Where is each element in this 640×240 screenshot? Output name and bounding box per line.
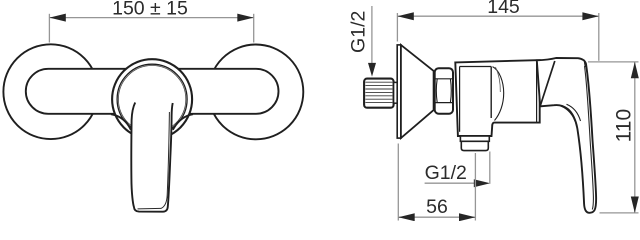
svg-text:56: 56 [426,196,448,218]
label G1/2 bottom: leader line [425,182,477,184]
flange circle right [209,45,304,140]
dim 110: arrowhead up [631,62,639,78]
dim 56: dimension line [398,216,475,218]
handle cap inner vertical [584,60,585,68]
hex nut [435,68,453,114]
label G1/2 top: leader line [371,6,373,64]
dim 56: extension line left [397,144,399,221]
handle neck front edge [540,61,555,106]
dim 150±15: arrowhead left [49,14,65,22]
svg-text:G1/2: G1/2 [425,162,467,184]
lever white fill [131,93,173,212]
dim 110: extension line bottom [600,212,639,214]
dim 145: arrowhead left [397,12,413,20]
body capsule [26,69,279,114]
dim 145: arrowhead right [582,12,598,20]
body front face top line [460,66,492,68]
dim 145: extension line right [598,13,600,61]
dim 145: dimension line [397,15,598,17]
knurled nut G1/2 [364,79,394,108]
svg-text:110: 110 [612,109,635,142]
dim 150±15: extension line right [253,14,255,43]
flange circle left [3,44,98,139]
dome disc (escutcheon outer ring) [112,59,192,139]
body front face left edge [459,67,461,132]
body inner vertical (back edge double line) [536,60,538,122]
blade inner edge line [585,66,594,210]
wall plate (double line) [397,45,401,138]
dome side profile arc [493,67,504,121]
dim 56: extension line right [474,153,476,221]
dim 110: arrowhead down [631,197,639,213]
svg-text:150 ± 15: 150 ± 15 [112,0,188,19]
lever inner edge line [138,112,170,209]
handle (side) silhouette [537,58,596,213]
label G1/2 bottom: target extension line [489,152,491,184]
knurl ribs [365,82,392,102]
dim 56: arrowhead left [398,213,414,221]
handle under-cap arc inner [567,104,581,121]
hex nut facet line bottom [435,102,453,104]
label G1/2 bottom: arrowhead right [474,179,490,187]
handle under-cap arc outer [561,106,576,124]
dome ring 3 [118,66,185,133]
dim 150±15: extension line left [48,14,50,43]
dim 110: dimension line [634,62,636,213]
hex nut facet line top [435,78,453,80]
stem between knurl and wall [394,82,398,103]
hex nut barrel arc right [449,79,452,103]
dim 150±15: dimension line [49,17,253,19]
lever outline [131,103,172,212]
dim 56: arrowhead right [459,213,475,221]
label G1/2 top: arrowhead down [368,63,376,77]
fillet right (dome base to lever) [173,114,193,130]
body outline (side) [455,60,539,136]
svg-text:G1/2: G1/2 [347,11,369,53]
outlet seat band [460,136,489,141]
body front face right edge [490,67,492,119]
cone escutcheon [401,45,434,138]
fillet left (dome base to lever) [111,114,131,130]
dome side inner arc [496,67,501,92]
hex nut barrel arc left [435,79,438,103]
dim 145: extension line left [396,13,398,42]
outlet hose nut [461,141,488,150]
svg-text:145: 145 [487,0,520,18]
dim 150±15: arrowhead right [237,14,253,22]
dome ring 2 [117,64,187,134]
dim 110: extension line top [588,61,639,63]
